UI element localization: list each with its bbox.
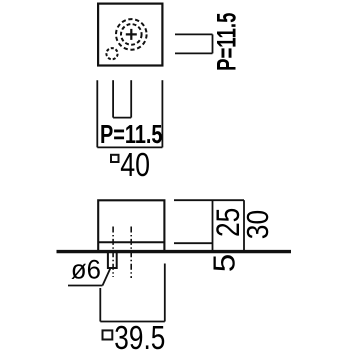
bottom width left extension line [99, 288, 101, 322]
flange extension line [174, 242, 213, 244]
width dimension line [97, 146, 162, 148]
pipe stub below wall [108, 252, 117, 268]
svg-text:P=11.5: P=11.5 [212, 13, 242, 71]
width dimension right extension line [161, 80, 163, 147]
side view body rectangle [98, 200, 164, 251]
center line right hole [130, 227, 132, 279]
dimension line 30 [243, 200, 245, 251]
pitch bracket right line [130, 80, 132, 117]
center line left hole [112, 227, 114, 278]
svg-text:P=11.5: P=11.5 [100, 119, 163, 149]
bottom width dimension line [100, 321, 165, 323]
height dimensions top extension line [174, 199, 244, 201]
small hole dashed circle [106, 48, 117, 59]
flange line [98, 241, 164, 243]
right pitch dimension extension line upper [175, 33, 213, 35]
pitch bracket connector [113, 117, 131, 119]
leader line diagonal [103, 268, 111, 286]
big hole outer dashed circle [116, 19, 147, 50]
center cross mark [126, 29, 137, 40]
svg-text:ø6: ø6 [71, 255, 101, 285]
top view square body (40x40) [98, 4, 162, 66]
bottom width right extension line [164, 264, 166, 322]
svg-text:40: 40 [120, 146, 150, 183]
label square symbol 40 [111, 155, 119, 162]
pitch bracket left line [112, 80, 114, 117]
wall mounting surface line [57, 250, 292, 253]
svg-text:39.5: 39.5 [114, 319, 165, 350]
width dimension left extension line [96, 80, 98, 147]
svg-text:5: 5 [208, 254, 242, 273]
label square symbol 39.5 [103, 330, 113, 339]
right pitch dimension connector [212, 34, 214, 53]
dimension line 25/5 [212, 200, 214, 251]
svg-text:30: 30 [241, 210, 275, 239]
right pitch dimension extension line lower [175, 52, 213, 54]
big hole inner dashed circle [121, 24, 142, 45]
leader line shoulder [68, 285, 103, 287]
